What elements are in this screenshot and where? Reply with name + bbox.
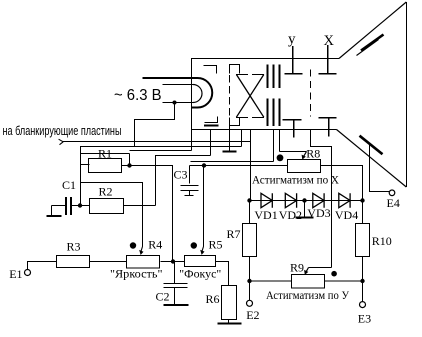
grid g1 bottom bar — [205, 117, 218, 123]
potentiometer R5 — [185, 256, 216, 267]
ground C1 — [51, 206, 53, 216]
arrow R8 lead — [303, 152, 306, 158]
wire R7 bottom to E2 — [249, 257, 251, 301]
terminal E1 stem — [28, 262, 57, 270]
resistor R2 — [90, 199, 124, 214]
grid g2 top cap — [230, 65, 240, 74]
svg-text:"Яркость": "Яркость" — [110, 267, 163, 281]
svg-text:R3: R3 — [67, 240, 81, 254]
diode VD2 — [285, 193, 296, 207]
wire heater bottom L — [135, 103, 175, 147]
svg-text:R2: R2 — [99, 185, 113, 199]
resistor R7 — [243, 224, 257, 257]
pin long to R7 — [250, 130, 252, 201]
wire funnel right edge — [406, 2, 408, 187]
diode VD4 — [339, 193, 350, 207]
resistor R1 — [89, 159, 122, 173]
terminal E1 circle — [25, 270, 31, 276]
CRT funnel bottom flare — [337, 130, 407, 188]
bullet R8 — [277, 154, 284, 161]
svg-text:Е4: Е4 — [387, 196, 400, 210]
terminal E4 circle — [389, 190, 395, 196]
bullet R9 — [331, 271, 337, 277]
wire R3-R4 — [90, 261, 127, 263]
screen coating bottom thick — [360, 136, 383, 155]
wire C1 node up to R4 wiper — [81, 183, 143, 247]
svg-text:X: X — [324, 33, 335, 49]
junction focus rail — [202, 163, 206, 167]
terminal E3 circle — [360, 302, 366, 308]
ground diode row — [304, 201, 306, 217]
anode grid dash 1 — [267, 65, 269, 127]
junction R1 right — [127, 163, 131, 167]
screen coating top thick — [361, 35, 384, 51]
resistor R10 — [356, 224, 370, 257]
svg-text:R5: R5 — [209, 238, 223, 252]
wire R10 bottom to E3 — [362, 257, 364, 302]
bullet R5 — [191, 242, 197, 248]
junction C1-R2 — [78, 203, 82, 207]
anode grid dash 3 — [279, 65, 281, 127]
arrow R4 wiper — [141, 247, 143, 252]
deflection plate Y top — [285, 46, 303, 74]
blanking wire arrowhead — [59, 139, 64, 145]
cathode bottom line — [192, 107, 198, 109]
arrowhead R9 — [304, 270, 308, 275]
svg-text:R6: R6 — [206, 292, 220, 306]
wire R8 right — [321, 166, 363, 201]
svg-text:R7: R7 — [227, 227, 241, 241]
wire R5 wiper — [203, 166, 205, 247]
ground C2 — [164, 304, 189, 306]
CRT envelope gun walls — [192, 59, 340, 130]
bullet R4 — [130, 242, 136, 248]
capacitor C2 — [164, 262, 188, 305]
svg-text:на бланкирующие пластины: на бланкирующие пластины — [3, 123, 122, 138]
grid g2 dashed cylinder — [229, 75, 231, 117]
svg-text:у: у — [288, 32, 296, 48]
wire R1 dot up — [129, 154, 131, 166]
blanking plates cross — [236, 75, 263, 118]
diode VD3 — [313, 193, 324, 207]
pin grid1 — [210, 130, 212, 156]
junction E2 — [247, 279, 251, 283]
wire blanking line — [63, 141, 251, 143]
heater inner bottom lead — [163, 102, 194, 104]
svg-text:C1: C1 — [62, 178, 76, 192]
ground R6 — [228, 320, 230, 323]
cathode bottom thick bar — [204, 125, 219, 127]
capacitor C1 — [66, 197, 71, 215]
wire R10 top — [362, 201, 364, 224]
wire R8 wiper feed — [280, 151, 307, 153]
svg-text:Е2: Е2 — [246, 308, 259, 322]
svg-text:R10: R10 — [372, 234, 392, 248]
pin blanking electrode — [241, 130, 243, 147]
wire focus rail — [190, 165, 288, 167]
wire cathode to R1 — [130, 150, 192, 152]
svg-text:Астигматизм по У: Астигматизм по У — [266, 288, 349, 302]
pin accel grid — [273, 130, 275, 162]
arrowhead R4 — [139, 250, 143, 255]
wire R5 right to R6 — [216, 262, 229, 286]
svg-text:C3: C3 — [174, 168, 188, 182]
wire y161 — [191, 161, 274, 163]
svg-text:R1: R1 — [98, 146, 112, 160]
wire C1 node to blanking pin — [81, 147, 242, 206]
wire R7 top — [249, 201, 251, 224]
chassis bar — [223, 150, 237, 152]
junction diode left — [247, 198, 251, 202]
heater top lead — [143, 77, 198, 79]
potentiometer R8 — [288, 160, 321, 173]
diode row wire — [250, 200, 363, 202]
junction R4-R5 — [171, 259, 175, 263]
deflection plate Y bottom — [283, 120, 302, 138]
deflection plate X bottom — [319, 118, 337, 137]
pin shield down — [311, 130, 332, 268]
arrowhead R8 — [302, 155, 306, 160]
wire E2 node right — [250, 280, 292, 282]
blanking plates cross top dashed bar — [236, 74, 266, 76]
grid g1 top bracket — [204, 66, 217, 74]
blanking plates cross bottom dashed bar — [236, 117, 266, 119]
pin cathode — [191, 130, 193, 151]
junction heater — [173, 101, 177, 105]
junction diode mid — [302, 198, 306, 202]
wire C1 right to R2 — [71, 205, 90, 207]
svg-text:R9: R9 — [290, 261, 304, 275]
screen lead to E4 — [370, 144, 390, 192]
svg-text:~ 6.3 В: ~ 6.3 В — [114, 87, 162, 104]
diode VD1 — [261, 193, 272, 207]
pin to R8 wiper — [279, 130, 281, 152]
resistor R6 — [222, 286, 237, 320]
svg-text:Е1: Е1 — [9, 267, 22, 281]
svg-text:"Фокус": "Фокус" — [179, 267, 221, 281]
terminal E2 circle — [247, 300, 253, 306]
anode grid dash 2 — [273, 65, 275, 127]
screen coating top thin — [357, 40, 379, 56]
CRT funnel top flare — [339, 2, 406, 59]
svg-text:Е3: Е3 — [358, 312, 371, 326]
svg-text:VD1: VD1 — [254, 208, 277, 222]
svg-text:R8: R8 — [306, 147, 320, 161]
capacitor C3 — [181, 166, 199, 196]
wire R1 left jog — [81, 154, 130, 165]
wire grid1 to R2 net — [156, 156, 211, 206]
potentiometer R9 — [292, 275, 325, 289]
arrow R5 wiper — [202, 247, 204, 252]
grid g2 bottom cap — [230, 118, 240, 126]
resistor R3 — [57, 256, 90, 268]
deflection plate X top — [319, 45, 337, 74]
pin g2 chassis stem — [229, 126, 231, 151]
wire R9 right — [325, 280, 363, 282]
svg-text:C2: C2 — [156, 290, 170, 304]
cathode heater outer arc — [198, 78, 213, 108]
wire R4-R5 — [161, 261, 185, 263]
arrowhead R5 — [200, 250, 204, 255]
shield electrode dashed — [310, 70, 312, 117]
wire R1 right rail — [122, 166, 173, 262]
svg-text:VD4: VD4 — [335, 208, 358, 222]
wire R9 wiper feed — [309, 267, 332, 269]
svg-text:R4: R4 — [148, 238, 162, 252]
wire R2 right — [124, 205, 156, 207]
arrow R9 lead — [306, 268, 309, 273]
svg-text:Астигматизм по X: Астигматизм по X — [252, 172, 339, 186]
wire C1 left — [52, 205, 67, 207]
svg-text:VD2: VD2 — [279, 208, 302, 222]
heater inner arc — [193, 85, 202, 103]
potentiometer R4 — [127, 256, 160, 269]
svg-text:VD3: VD3 — [307, 206, 330, 220]
heater inner top lead — [163, 84, 194, 86]
junction diode right — [360, 198, 364, 202]
junction E3 — [360, 279, 364, 283]
